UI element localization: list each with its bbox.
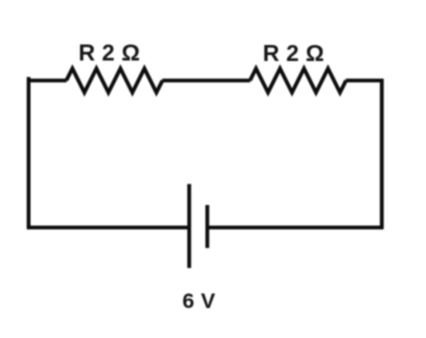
svg-text:6 V: 6 V [182, 289, 216, 313]
battery B1 long plate (left) [187, 184, 191, 268]
wire: top-left horizontal segment [27, 79, 67, 83]
wire: bottom-right horizontal segment from battery [208, 226, 384, 230]
wire: left vertical side [27, 77, 31, 229]
wire: top-right horizontal segment [346, 79, 384, 83]
resistor R2 (right, R 2 Ω) zigzag [250, 69, 346, 93]
battery B1 short plate (right) [205, 205, 209, 248]
svg-text:R 2 Ω: R 2 Ω [78, 40, 140, 66]
wire: right vertical side [380, 79, 384, 229]
resistor R1 (left, R 2 Ω) zigzag [66, 69, 162, 93]
wire: top-middle horizontal segment between resistors [162, 79, 250, 83]
svg-text:R 2 Ω: R 2 Ω [263, 40, 325, 66]
wire: bottom-left horizontal segment to battery [27, 226, 189, 230]
